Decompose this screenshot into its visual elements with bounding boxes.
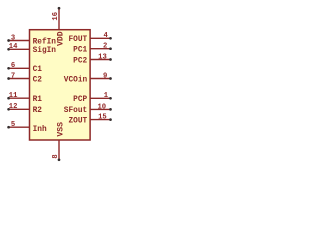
svg-text:ZOUT: ZOUT [68, 117, 87, 125]
svg-text:6: 6 [11, 62, 15, 70]
svg-text:VDD: VDD [57, 31, 66, 46]
svg-text:9: 9 [103, 72, 107, 80]
svg-text:R2: R2 [33, 107, 43, 115]
pin 10 (SFout) wire [90, 108, 110, 110]
svg-text:5: 5 [11, 121, 15, 129]
svg-text:PC2: PC2 [73, 57, 87, 65]
pin 3 end dot [7, 39, 10, 42]
svg-text:8: 8 [52, 154, 60, 158]
svg-text:15: 15 [98, 114, 107, 122]
pin 9 (VCOin) wire [90, 78, 110, 80]
svg-text:PC1: PC1 [73, 47, 87, 55]
pin 12 (R2) wire [9, 108, 30, 110]
pin 7 end dot [7, 77, 10, 80]
svg-text:7: 7 [11, 72, 15, 80]
pin 10 end dot [109, 108, 112, 111]
pin 4 (FOUT) wire [90, 37, 110, 39]
svg-text:16: 16 [52, 12, 60, 21]
svg-text:3: 3 [11, 34, 15, 42]
pin 16 (VDD) wire [58, 8, 60, 30]
pin 14 (SigIn) wire [9, 48, 30, 50]
pin 11 (R1) wire [9, 97, 30, 99]
svg-text:SigIn: SigIn [33, 47, 57, 55]
svg-text:FOUT: FOUT [68, 36, 87, 44]
pin 16 end dot [58, 7, 61, 10]
svg-text:VCOin: VCOin [64, 76, 88, 84]
pin 6 end dot [7, 67, 10, 70]
IC U1 : 4046 PLL symbol body [30, 30, 91, 140]
pin 15 end dot [109, 118, 112, 121]
pin 14 end dot [7, 48, 10, 51]
pin 15 (ZOUT) wire [90, 119, 110, 121]
svg-text:PCP: PCP [73, 96, 87, 104]
pin 2 (PC1) wire [90, 48, 110, 50]
pin 1 end dot [109, 97, 112, 100]
pin 6 (C1) wire [9, 67, 30, 69]
pin 5 end dot [7, 126, 10, 129]
svg-text:4: 4 [104, 32, 109, 40]
svg-text:VSS: VSS [57, 122, 66, 137]
pin 4 end dot [109, 37, 112, 40]
svg-text:SFout: SFout [64, 107, 87, 115]
svg-text:Inh: Inh [33, 126, 47, 134]
pin 8 end dot [58, 158, 61, 161]
svg-text:12: 12 [9, 103, 18, 111]
pin 8 (VSS) wire [58, 140, 60, 160]
pin 13 end dot [109, 58, 112, 61]
pin 9 end dot [109, 77, 112, 80]
svg-text:C1: C1 [33, 66, 43, 74]
pin 13 (PC2) wire [90, 59, 110, 61]
pin 7 (C2) wire [9, 78, 30, 80]
svg-text:C2: C2 [33, 76, 43, 84]
pin 1 (PCP) wire [90, 97, 110, 99]
svg-text:11: 11 [9, 92, 18, 100]
pin 12 end dot [7, 108, 10, 111]
svg-text:RefIn: RefIn [33, 38, 57, 46]
svg-text:1: 1 [104, 92, 109, 100]
pin 2 end dot [109, 47, 112, 50]
pin 11 end dot [7, 97, 10, 100]
pin 5 (Inh) wire [9, 126, 30, 128]
svg-text:13: 13 [98, 53, 107, 61]
svg-text:2: 2 [103, 43, 107, 51]
svg-text:10: 10 [97, 103, 106, 111]
svg-text:R1: R1 [33, 96, 43, 104]
pin 3 (RefIn) wire [9, 40, 30, 42]
svg-text:14: 14 [9, 43, 18, 51]
